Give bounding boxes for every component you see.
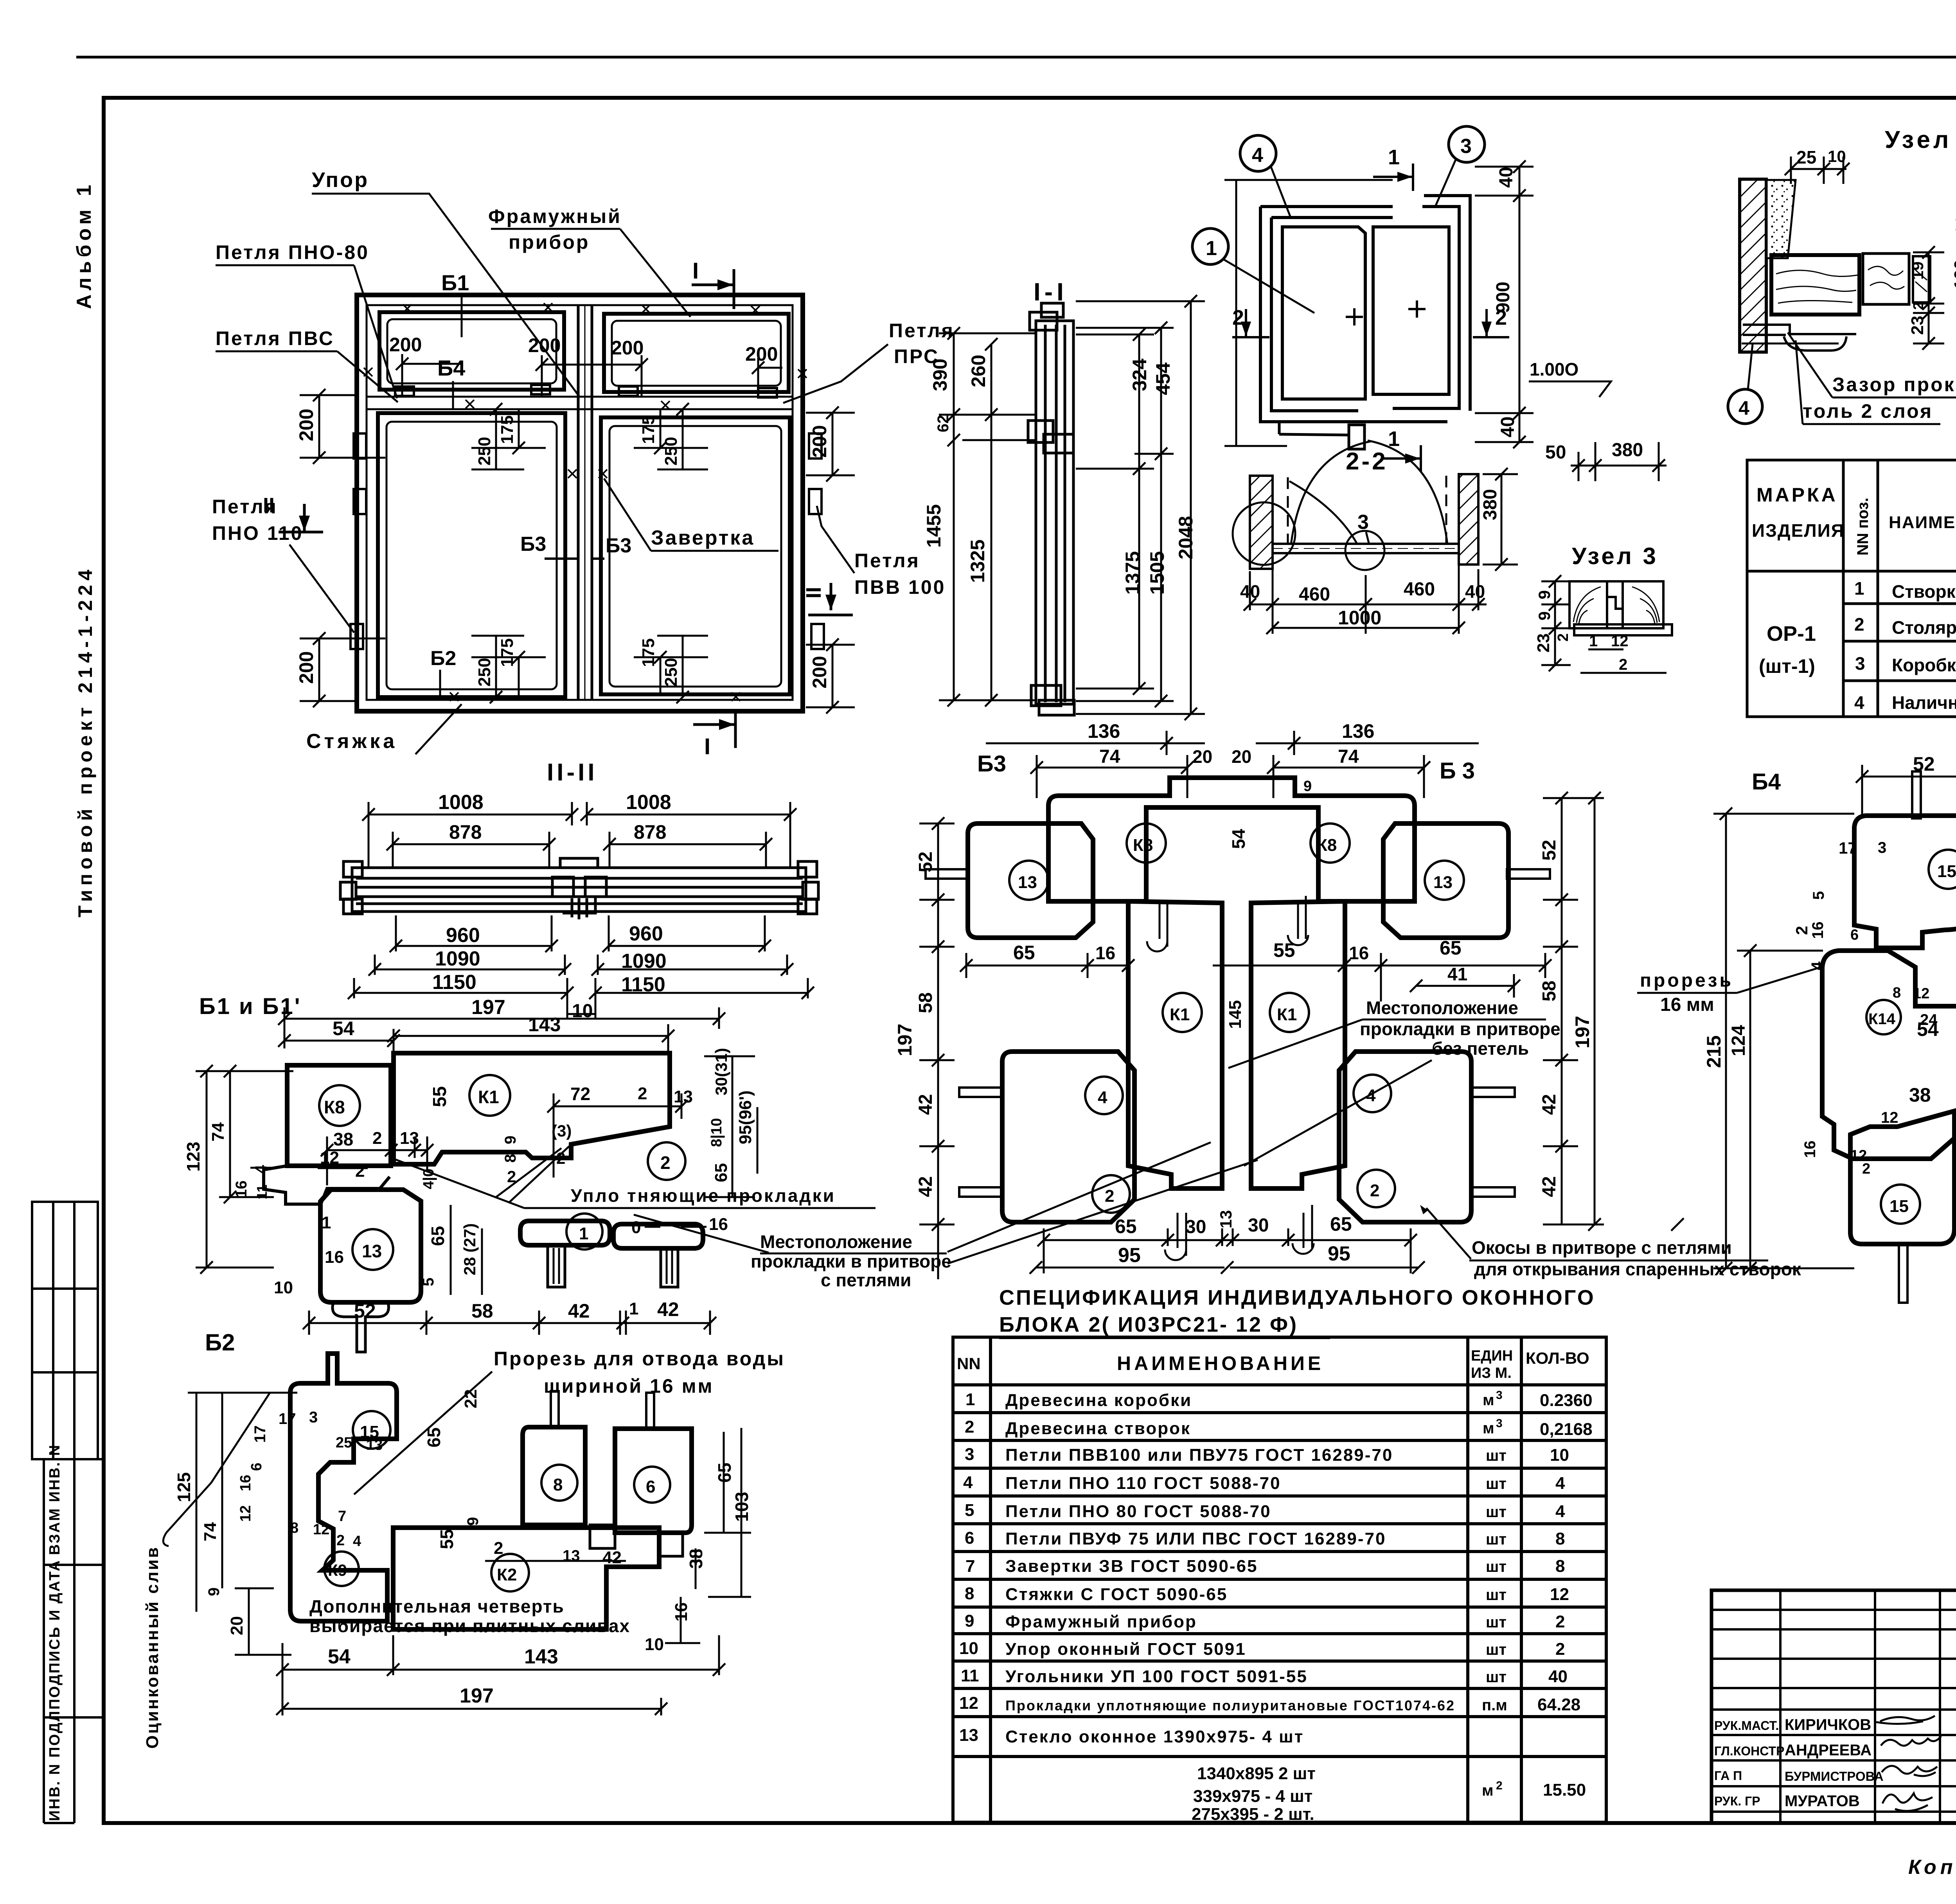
svg-text:АНДРЕЕВА: АНДРЕЕВА bbox=[1785, 1742, 1872, 1759]
svg-text:прорезь: прорезь bbox=[1640, 970, 1733, 991]
svg-text:ЕДИН: ЕДИН bbox=[1471, 1348, 1513, 1364]
svg-text:Узел 3: Узел 3 bbox=[1572, 543, 1658, 569]
B3 lower sash right bbox=[1339, 1052, 1471, 1222]
svg-text:м: м bbox=[1482, 1782, 1494, 1799]
svg-text:4: 4 bbox=[353, 1533, 361, 1550]
svg-text:2: 2 bbox=[1232, 306, 1244, 329]
svg-text:шириной 16 мм: шириной 16 мм bbox=[544, 1375, 714, 1397]
svg-text:9: 9 bbox=[1303, 778, 1312, 795]
svg-text:II-II: II-II bbox=[547, 759, 598, 786]
svg-text:12: 12 bbox=[237, 1505, 254, 1522]
plan left extent line bbox=[1235, 180, 1237, 446]
svg-text:Петля ПВС: Петля ПВС bbox=[216, 327, 334, 349]
svg-text:Упор оконный ГОСТ 5091: Упор оконный ГОСТ 5091 bbox=[1005, 1640, 1246, 1659]
svg-text:РУК. ГР: РУК. ГР bbox=[1714, 1794, 1760, 1808]
svg-text:16: 16 bbox=[325, 1248, 344, 1267]
svg-text:390: 390 bbox=[929, 359, 951, 391]
svg-text:20: 20 bbox=[227, 1616, 246, 1635]
svg-text:I: I bbox=[704, 734, 710, 759]
B3 mid dims bbox=[966, 953, 1545, 1001]
plan plus marks bbox=[1346, 308, 1363, 325]
svg-text:12: 12 bbox=[1611, 633, 1629, 650]
signatures squiggles bbox=[1876, 1716, 1935, 1724]
svg-text:Петли ПНО 110 ГОСТ 5088-: Петли ПНО 110 ГОСТ 5088-70 bbox=[1005, 1474, 1281, 1493]
svg-text:960: 960 bbox=[446, 924, 480, 947]
svg-text:3: 3 bbox=[1496, 1389, 1503, 1402]
dim 200 top sashes bbox=[389, 334, 778, 365]
svg-text:8|10: 8|10 bbox=[708, 1118, 725, 1147]
dim 250/175 rotated upper bbox=[475, 415, 681, 687]
B3 right dim chain bbox=[1543, 798, 1604, 1224]
svg-text:460: 460 bbox=[1299, 584, 1330, 605]
svg-text:Петля: Петля bbox=[889, 320, 955, 342]
svg-text:20: 20 bbox=[1192, 746, 1212, 767]
svg-text:9: 9 bbox=[502, 1136, 519, 1144]
svg-text:52: 52 bbox=[1539, 840, 1560, 861]
svg-text:шт: шт bbox=[1486, 1668, 1507, 1686]
svg-text:125: 125 bbox=[174, 1472, 194, 1502]
Uzel 1 sill bottom bbox=[1743, 325, 1856, 334]
svg-text:шт: шт bbox=[1486, 1558, 1507, 1575]
top sash right bbox=[604, 314, 789, 392]
svg-text:23: 23 bbox=[1534, 633, 1553, 653]
svg-text:55: 55 bbox=[1273, 939, 1295, 961]
svg-text:250: 250 bbox=[662, 437, 681, 466]
svg-text:9: 9 bbox=[464, 1517, 482, 1526]
svg-text:30: 30 bbox=[1952, 215, 1956, 235]
B1 bottom middle profile 1 bbox=[520, 1221, 610, 1245]
svg-text:40: 40 bbox=[1240, 581, 1260, 602]
circled 1 bbox=[1192, 228, 1228, 264]
svg-text:2: 2 bbox=[1105, 1187, 1114, 1206]
svg-text:16 мм: 16 мм bbox=[1660, 994, 1714, 1015]
svg-text:8: 8 bbox=[1555, 1529, 1565, 1548]
svg-text:1325: 1325 bbox=[967, 539, 989, 583]
svg-text:БУРМИСТРОВА: БУРМИСТРОВА bbox=[1785, 1769, 1884, 1784]
svg-text:8: 8 bbox=[965, 1584, 974, 1603]
svg-text:24: 24 bbox=[1920, 1011, 1938, 1028]
svg-text:ПВВ 100: ПВВ 100 bbox=[854, 576, 946, 598]
B3 central mullion bbox=[1128, 901, 1222, 1188]
svg-text:143: 143 bbox=[528, 1014, 561, 1036]
svg-text:40: 40 bbox=[1496, 167, 1517, 188]
svg-text:6: 6 bbox=[646, 1477, 655, 1496]
svg-text:38: 38 bbox=[1909, 1084, 1931, 1106]
svg-text:КОЛ-ВО: КОЛ-ВО bbox=[1526, 1349, 1589, 1367]
sill board bbox=[1273, 543, 1459, 545]
svg-text:58: 58 bbox=[471, 1300, 493, 1322]
svg-text:65: 65 bbox=[1115, 1215, 1137, 1237]
svg-text:42: 42 bbox=[915, 1094, 936, 1115]
svg-text:260: 260 bbox=[967, 355, 989, 387]
Uzel 1 blocks right bbox=[1863, 254, 1909, 304]
svg-text:ИЗ М.: ИЗ М. bbox=[1471, 1365, 1512, 1381]
svg-text:Створка окна: Створка окна bbox=[1892, 581, 1956, 602]
circled 4 leader bbox=[1728, 389, 1762, 424]
svg-text:0,2168: 0,2168 bbox=[1540, 1420, 1593, 1439]
spec rows numbers bbox=[959, 1390, 979, 1745]
svg-text:17: 17 bbox=[279, 1410, 296, 1428]
svg-text:К1: К1 bbox=[1277, 1005, 1297, 1024]
svg-text:6: 6 bbox=[248, 1463, 265, 1471]
svg-text:197: 197 bbox=[894, 1024, 916, 1056]
svg-text:Древесина коробки: Древесина коробки bbox=[1005, 1391, 1192, 1410]
transom divider bbox=[367, 396, 793, 398]
svg-text:74: 74 bbox=[1099, 746, 1120, 767]
svg-text:Петля ПНО-80: Петля ПНО-80 bbox=[216, 241, 369, 263]
svg-text:22: 22 bbox=[461, 1389, 480, 1408]
plan right dim chain 40/900/40 bbox=[1475, 167, 1534, 442]
svg-text:54: 54 bbox=[328, 1645, 351, 1668]
svg-text:42: 42 bbox=[657, 1298, 679, 1320]
I-I left dim chain bbox=[939, 333, 1037, 700]
svg-text:Узел 1: Узел 1 bbox=[1885, 126, 1956, 153]
svg-text:2: 2 bbox=[1555, 1640, 1565, 1659]
page outer thin border bbox=[76, 56, 1956, 59]
svg-text:960: 960 bbox=[629, 922, 663, 945]
svg-text:124: 124 bbox=[1728, 1025, 1749, 1056]
svg-text:38: 38 bbox=[333, 1129, 353, 1149]
svg-text:2: 2 bbox=[1862, 1161, 1870, 1177]
svg-text:2: 2 bbox=[1370, 1181, 1379, 1200]
swing arcs bbox=[1291, 441, 1371, 545]
B3 hinge small parts at mullion top bbox=[1147, 896, 1308, 951]
svg-text:Оцинкованный слив: Оцинкованный слив bbox=[143, 1546, 162, 1749]
svg-text:200: 200 bbox=[611, 337, 644, 359]
svg-text:1: 1 bbox=[629, 1299, 638, 1318]
svg-text:12: 12 bbox=[313, 1521, 329, 1538]
detail circles bbox=[1233, 502, 1295, 565]
svg-text:1150: 1150 bbox=[432, 971, 476, 994]
svg-text:2: 2 bbox=[1555, 1612, 1565, 1631]
svg-text:5: 5 bbox=[1810, 891, 1827, 900]
svg-text:с петлями: с петлями bbox=[821, 1270, 911, 1290]
svg-text:65: 65 bbox=[428, 1226, 448, 1246]
svg-text:143: 143 bbox=[524, 1645, 558, 1668]
svg-text:42: 42 bbox=[1539, 1094, 1560, 1115]
svg-text:54: 54 bbox=[1228, 829, 1249, 849]
svg-text:339х975 - 4 шт: 339х975 - 4 шт bbox=[1193, 1787, 1312, 1806]
Uzel 1 right dims 19/2/23 bbox=[1913, 252, 1944, 343]
svg-text:15.50: 15.50 bbox=[1543, 1780, 1586, 1800]
svg-text:Петли ПВВ100 или ПВУ75 ГО: Петли ПВВ100 или ПВУ75 ГОСТ 16289-70 bbox=[1005, 1446, 1393, 1465]
sidebar lower cells bbox=[44, 1459, 104, 1823]
svg-text:3: 3 bbox=[1496, 1417, 1503, 1430]
svg-text:16: 16 bbox=[1095, 943, 1115, 963]
svg-text:250: 250 bbox=[662, 658, 681, 687]
svg-text:136: 136 bbox=[1088, 720, 1120, 742]
dim 200 rotated sides bbox=[295, 409, 831, 689]
svg-text:ИНВ. N ПОДЛ: ИНВ. N ПОДЛ bbox=[47, 1710, 63, 1821]
svg-text:РУК.МАСТ.: РУК.МАСТ. bbox=[1714, 1719, 1779, 1733]
svg-text:Петли ПВУФ 75 ИЛИ ПВС ГО: Петли ПВУФ 75 ИЛИ ПВС ГОСТ 16289-70 bbox=[1005, 1529, 1386, 1548]
right wall hatched bbox=[1459, 474, 1478, 565]
svg-text:II: II bbox=[263, 494, 275, 517]
svg-text:3: 3 bbox=[1855, 653, 1865, 674]
svg-text:40: 40 bbox=[1465, 581, 1485, 602]
svg-text:74: 74 bbox=[201, 1522, 220, 1541]
svg-text:Коробка: Коробка bbox=[1892, 655, 1956, 675]
svg-text:250: 250 bbox=[475, 437, 494, 466]
svg-text:Наличник: Наличник bbox=[1892, 692, 1956, 713]
B1 top dims 197/54/143 bbox=[284, 1007, 719, 1054]
svg-text:Прорезь для отвода воды: Прорезь для отвода воды bbox=[494, 1348, 785, 1370]
svg-text:15: 15 bbox=[1937, 862, 1956, 881]
svg-text:9: 9 bbox=[205, 1588, 223, 1596]
50/380 dims (right of plan) bbox=[1571, 442, 1667, 481]
svg-text:215: 215 bbox=[1703, 1036, 1725, 1068]
svg-text:NN: NN bbox=[957, 1354, 981, 1373]
svg-text:197: 197 bbox=[471, 996, 505, 1019]
spec units bbox=[1482, 1389, 1507, 1799]
svg-text:16: 16 bbox=[709, 1215, 728, 1234]
Uzel 3 wood section bbox=[1569, 581, 1672, 635]
svg-text:17: 17 bbox=[1839, 839, 1857, 857]
B3 left dim chain bbox=[919, 823, 955, 1279]
svg-text:К1: К1 bbox=[478, 1087, 499, 1107]
svg-text:16: 16 bbox=[233, 1181, 250, 1198]
svg-text:12: 12 bbox=[1550, 1585, 1569, 1604]
svg-text:64.28: 64.28 bbox=[1537, 1695, 1580, 1714]
svg-text:(3): (3) bbox=[552, 1122, 572, 1140]
svg-text:4: 4 bbox=[1555, 1474, 1565, 1493]
svg-text:19: 19 bbox=[1908, 261, 1927, 280]
svg-text:10: 10 bbox=[1828, 147, 1846, 165]
svg-text:К1: К1 bbox=[1170, 1005, 1190, 1024]
left wall hatched bbox=[1250, 476, 1273, 569]
svg-text:1: 1 bbox=[965, 1390, 975, 1409]
svg-text:42: 42 bbox=[1539, 1176, 1560, 1197]
Uzel 3 grain arcs bbox=[1573, 587, 1601, 624]
svg-text:Стяжки С ГОСТ 5090-65: Стяжки С ГОСТ 5090-65 bbox=[1005, 1585, 1228, 1604]
svg-text:40: 40 bbox=[1498, 417, 1518, 437]
svg-text:40: 40 bbox=[1548, 1667, 1568, 1686]
svg-text:95(96'): 95(96') bbox=[736, 1090, 755, 1144]
B4 left jamb bottom sash 15 bbox=[1850, 1111, 1954, 1244]
svg-text:п.м: п.м bbox=[1482, 1697, 1507, 1714]
Uzel 1 top dims 25/10 bbox=[1791, 156, 1846, 184]
svg-text:58: 58 bbox=[1539, 981, 1560, 1001]
svg-text:30: 30 bbox=[1185, 1217, 1206, 1237]
B4 left rotated dims bbox=[1713, 814, 1854, 1268]
svg-text:9: 9 bbox=[1535, 590, 1553, 599]
svg-text:1: 1 bbox=[1206, 237, 1217, 260]
svg-text:прокладки в притворе: прокладки в притворе bbox=[1360, 1019, 1560, 1039]
svg-text:2: 2 bbox=[965, 1417, 974, 1437]
svg-text:К14: К14 bbox=[1868, 1010, 1896, 1028]
svg-text:4: 4 bbox=[1854, 692, 1864, 713]
svg-text:К8: К8 bbox=[1133, 836, 1153, 855]
svg-text:9: 9 bbox=[1535, 611, 1553, 620]
B2 small step right bbox=[590, 1525, 683, 1556]
Uzel 1 wall hatch bbox=[1740, 179, 1766, 352]
svg-text:200: 200 bbox=[295, 651, 317, 684]
B4 top dims 52/58/42/1/42 bbox=[1862, 765, 1956, 818]
top sash left bbox=[379, 312, 564, 390]
svg-text:1: 1 bbox=[579, 1224, 588, 1243]
svg-text:1090: 1090 bbox=[435, 948, 480, 970]
B1 bottom middle profile 2 bbox=[613, 1224, 703, 1248]
svg-text:17: 17 bbox=[252, 1426, 269, 1443]
spec table grid bbox=[953, 1337, 1606, 1822]
svg-text:275х395 - 2 шт.: 275х395 - 2 шт. bbox=[1192, 1805, 1314, 1824]
B1 K8 block bbox=[287, 1065, 391, 1166]
svg-text:16: 16 bbox=[237, 1475, 254, 1491]
svg-text:324: 324 bbox=[1129, 358, 1151, 391]
2-2 bottom dims bbox=[1250, 559, 1487, 634]
svg-text:0: 0 bbox=[631, 1218, 641, 1237]
svg-text:3: 3 bbox=[1460, 135, 1472, 158]
svg-text:Местоположение: Местоположение bbox=[760, 1232, 912, 1252]
svg-text:шт: шт bbox=[1486, 1503, 1507, 1521]
Uzel 1 concrete speckle bbox=[1767, 180, 1796, 258]
svg-text:1: 1 bbox=[322, 1213, 331, 1232]
svg-text:4: 4 bbox=[1738, 397, 1749, 419]
svg-text:м: м bbox=[1483, 1392, 1494, 1409]
svg-text:100: 100 bbox=[1951, 259, 1956, 289]
spec quantities bbox=[1537, 1391, 1593, 1800]
svg-text:74: 74 bbox=[1338, 746, 1359, 767]
svg-text:Альбом 1: Альбом 1 bbox=[73, 181, 95, 309]
svg-text:1008: 1008 bbox=[438, 791, 484, 814]
svg-text:Завертки ЗВ ГОСТ 5090-65: Завертки ЗВ ГОСТ 5090-65 bbox=[1005, 1557, 1258, 1576]
svg-text:МАРКА: МАРКА bbox=[1756, 484, 1838, 506]
svg-text:Фрамужный прибор: Фрамужный прибор bbox=[1005, 1612, 1197, 1631]
svg-text:55: 55 bbox=[430, 1086, 450, 1107]
svg-text:13: 13 bbox=[1433, 873, 1453, 892]
svg-text:52: 52 bbox=[354, 1300, 376, 1322]
section mark I bottom bbox=[693, 723, 735, 726]
svg-text:28 (27): 28 (27) bbox=[460, 1223, 479, 1275]
svg-text:К9: К9 bbox=[328, 1561, 347, 1579]
svg-text:175: 175 bbox=[639, 415, 658, 444]
svg-text:9: 9 bbox=[965, 1611, 974, 1631]
svg-text:2: 2 bbox=[1555, 633, 1571, 642]
svg-text:13: 13 bbox=[400, 1129, 419, 1148]
svg-text:12: 12 bbox=[959, 1694, 978, 1713]
svg-text:4: 4 bbox=[1555, 1502, 1565, 1521]
svg-text:Б2: Б2 bbox=[430, 647, 456, 670]
B4 K14 region bbox=[1822, 951, 1956, 1159]
svg-text:123: 123 bbox=[183, 1142, 203, 1172]
I-I profile body bbox=[1028, 303, 1074, 715]
svg-text:К2: К2 bbox=[497, 1565, 517, 1584]
svg-text:Б3: Б3 bbox=[520, 533, 546, 556]
svg-text:1090: 1090 bbox=[621, 950, 667, 973]
svg-text:95: 95 bbox=[1328, 1242, 1350, 1265]
bottom sash right bbox=[601, 417, 790, 694]
svg-text:8: 8 bbox=[1555, 1557, 1565, 1576]
svg-text:Фрамужный: Фрамужный bbox=[488, 205, 622, 227]
svg-text:145: 145 bbox=[1226, 1000, 1245, 1029]
svg-text:5: 5 bbox=[420, 1278, 437, 1286]
svg-text:Дополнительная четверть: Дополнительная четверть bbox=[309, 1596, 565, 1616]
B2 sill bar bbox=[393, 1528, 659, 1629]
svg-text:1: 1 bbox=[1388, 146, 1400, 169]
svg-text:460: 460 bbox=[1404, 579, 1435, 600]
svg-text:БЛОКА 2( И03РС21- 12 Ф): БЛОКА 2( И03РС21- 12 Ф) bbox=[999, 1313, 1298, 1336]
svg-text:Б1 и Б1': Б1 и Б1' bbox=[199, 994, 302, 1019]
svg-text:16: 16 bbox=[1801, 1141, 1819, 1158]
svg-text:30: 30 bbox=[1248, 1215, 1269, 1236]
svg-text:23: 23 bbox=[1908, 316, 1927, 335]
svg-text:2: 2 bbox=[1619, 656, 1627, 673]
circled 3 bbox=[1449, 126, 1485, 162]
B3 bottom dims bbox=[1036, 1228, 1418, 1273]
svg-text:52: 52 bbox=[915, 852, 936, 872]
svg-text:16: 16 bbox=[1349, 943, 1369, 963]
B2 bottom dims bbox=[282, 1635, 719, 1715]
svg-text:Б3: Б3 bbox=[606, 534, 631, 557]
svg-text:8: 8 bbox=[290, 1520, 298, 1536]
svg-text:12: 12 bbox=[1881, 1109, 1898, 1126]
svg-text:1150: 1150 bbox=[621, 973, 665, 996]
svg-text:1: 1 bbox=[1854, 578, 1864, 599]
sidebar upper table bbox=[32, 1202, 98, 1459]
B2 box 8 bbox=[523, 1427, 585, 1525]
svg-text:шт: шт bbox=[1486, 1586, 1507, 1604]
svg-text:2: 2 bbox=[1854, 614, 1864, 635]
svg-text:Упор: Упор bbox=[312, 168, 369, 192]
svg-text:I-I: I-I bbox=[1034, 278, 1068, 306]
elevation outer frame bbox=[357, 295, 803, 711]
B2 box 6 bbox=[615, 1429, 692, 1533]
B3 top dims 136 / 74 20 20 74 / 136 bbox=[986, 731, 1479, 798]
svg-text:878: 878 bbox=[634, 821, 666, 843]
svg-text:(шт-1): (шт-1) bbox=[1759, 655, 1815, 677]
svg-text:13: 13 bbox=[366, 1437, 383, 1453]
svg-text:Древесина створок: Древесина створок bbox=[1005, 1419, 1191, 1438]
B1 K1 region bbox=[394, 1053, 670, 1164]
B3 lower sash left bbox=[1002, 1052, 1134, 1222]
svg-text:200: 200 bbox=[295, 409, 317, 441]
Uzel 3 dims bbox=[1541, 581, 1667, 673]
svg-text:Б4: Б4 bbox=[1752, 769, 1781, 795]
380 right rotated bbox=[1501, 474, 1503, 565]
svg-text:МУРАТОВ: МУРАТОВ bbox=[1785, 1793, 1860, 1810]
svg-text:толь 2 слоя: толь 2 слоя bbox=[1803, 400, 1933, 422]
dashed jamb lines bbox=[1287, 477, 1289, 543]
svg-text:Б3: Б3 bbox=[977, 751, 1006, 777]
svg-text:54: 54 bbox=[333, 1018, 354, 1039]
svg-text:2: 2 bbox=[638, 1084, 647, 1103]
bottom sash left bbox=[378, 413, 565, 697]
svg-text:65: 65 bbox=[1330, 1213, 1352, 1235]
B3 bottom hinge circles bbox=[1165, 1205, 1314, 1260]
svg-text:7: 7 bbox=[965, 1557, 975, 1576]
svg-text:10: 10 bbox=[959, 1639, 978, 1658]
svg-text:К8: К8 bbox=[324, 1097, 345, 1117]
II-II profile body bbox=[340, 858, 818, 919]
svg-text:1: 1 bbox=[1589, 633, 1598, 650]
svg-text:ВЗАМ ИНВ. N: ВЗАМ ИНВ. N bbox=[47, 1444, 63, 1555]
svg-text:Прокладки уплотняющие полиур: Прокладки уплотняющие полиуритановые ГОС… bbox=[1005, 1697, 1455, 1713]
svg-text:175: 175 bbox=[498, 415, 517, 444]
svg-text:50: 50 bbox=[1545, 442, 1566, 463]
svg-text:Петли ПНО 80 ГОСТ 5088-7: Петли ПНО 80 ГОСТ 5088-70 bbox=[1005, 1502, 1271, 1521]
B1 jamb step left bbox=[264, 1166, 390, 1204]
svg-text:11: 11 bbox=[961, 1666, 979, 1685]
svg-text:Завертка: Завертка bbox=[651, 527, 755, 549]
svg-text:ГА П: ГА П bbox=[1714, 1769, 1742, 1783]
small x marks on frame bbox=[364, 303, 807, 701]
svg-text:2: 2 bbox=[355, 1161, 365, 1181]
B1 lower-left block 13 bbox=[320, 1190, 421, 1302]
svg-text:прибор: прибор bbox=[509, 231, 590, 253]
svg-text:13: 13 bbox=[959, 1726, 978, 1745]
svg-text:НАИМЕНОВАНИЕ: НАИМЕНОВАНИЕ bbox=[1117, 1352, 1324, 1374]
svg-text:Б4: Б4 bbox=[437, 356, 465, 380]
